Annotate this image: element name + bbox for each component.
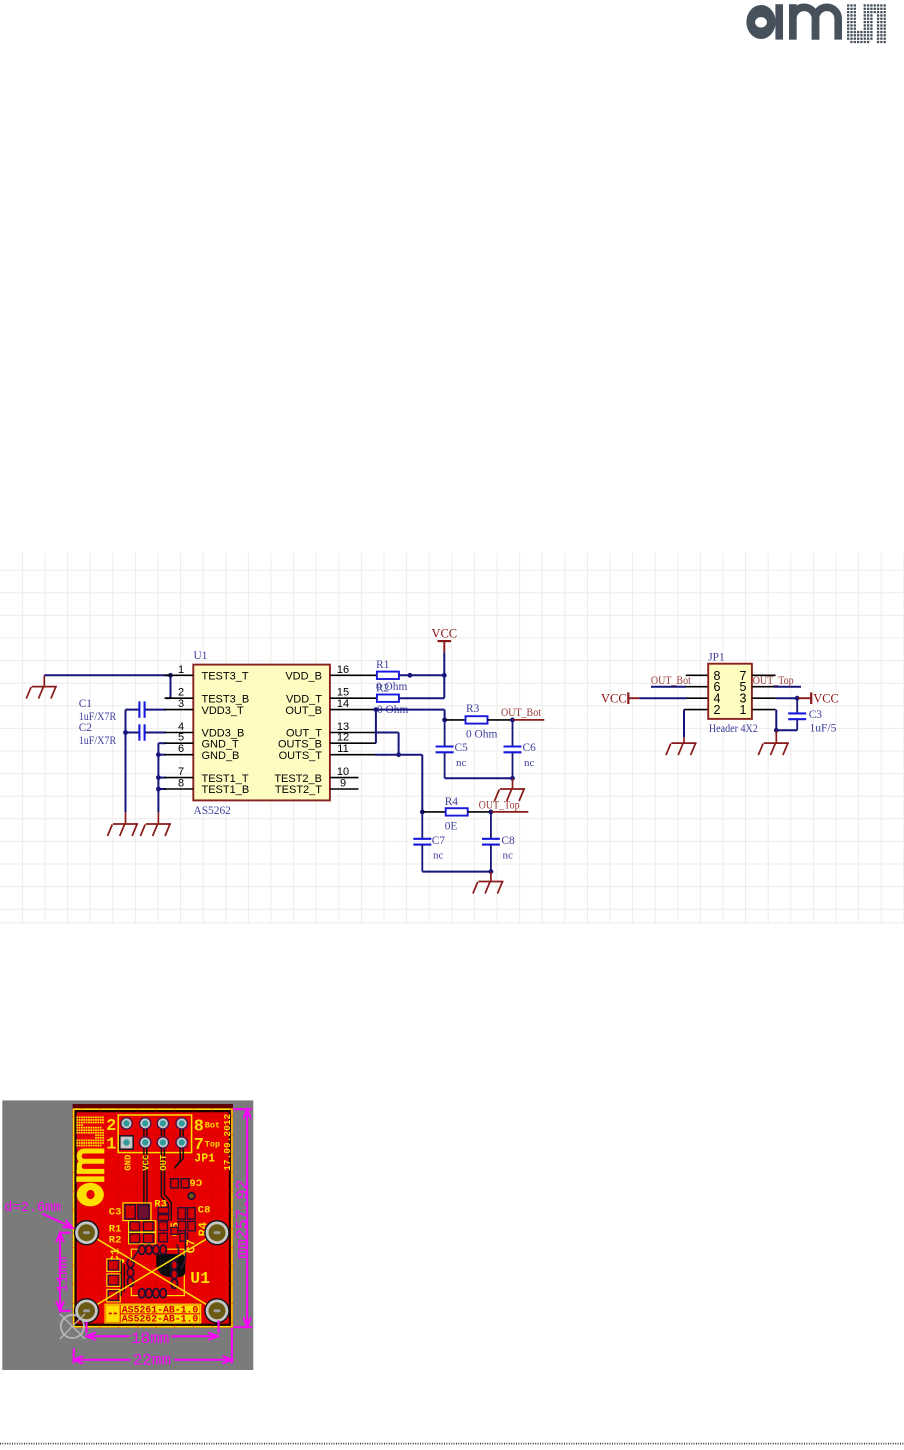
R4 refdes	[445, 796, 459, 808]
capacitor C2	[126, 724, 167, 740]
svg-text:d=2.6mm: d=2.6mm	[4, 1201, 61, 1216]
svg-text:nc: nc	[503, 850, 514, 862]
svg-text:R3: R3	[466, 703, 480, 715]
wire JP1 pin1 to C3 bottom	[752, 710, 797, 731]
pcb silk GND	[124, 1154, 134, 1171]
junction OUT_Top	[489, 810, 494, 815]
svg-text:OUT_Top: OUT_Top	[479, 798, 520, 812]
pcb yellow ams logo rotated	[76, 1116, 104, 1206]
pcb red board	[73, 1108, 233, 1328]
svg-text:VCC: VCC	[813, 692, 839, 706]
JP1 value Header 4X2	[709, 723, 758, 735]
svg-text:C6: C6	[189, 1175, 202, 1187]
U1 value AS5262	[194, 805, 232, 817]
svg-text:10: 10	[337, 766, 349, 778]
R4 value 0E	[445, 821, 458, 833]
svg-text:C5: C5	[455, 742, 469, 754]
resistor R4	[446, 808, 468, 815]
pcb silk C5 rotated	[168, 1222, 182, 1236]
pcb silk R2	[109, 1234, 122, 1246]
svg-text:1: 1	[740, 703, 747, 717]
svg-text:22mm: 22mm	[133, 1352, 171, 1370]
svg-text:14: 14	[337, 698, 349, 710]
pcb silk R1	[109, 1223, 122, 1235]
wire pins5-8 bus	[158, 743, 166, 812]
wire pin15 to R2	[359, 697, 377, 699]
svg-text:Top: Top	[205, 1140, 220, 1150]
pcb silk text 1	[106, 1136, 116, 1155]
net label OUT_Bot	[651, 673, 692, 687]
svg-text:GND_T: GND_T	[202, 738, 240, 750]
capacitor C8	[482, 812, 500, 872]
wire OUT_Bot to JP1 pin6	[651, 686, 708, 688]
pcb silk C8	[198, 1204, 211, 1216]
pcb board top dark edge	[73, 1104, 233, 1108]
pcb silk text JP1	[194, 1152, 215, 1165]
pcb component R3	[158, 1207, 169, 1220]
svg-text:nc: nc	[456, 757, 467, 769]
pcb silk C3	[109, 1206, 122, 1218]
R1 value overlapped with R2 refdes	[376, 681, 407, 695]
R3 refdes	[466, 703, 480, 715]
svg-text:OUTS_B: OUTS_B	[278, 738, 322, 750]
svg-text:TEST1_B: TEST1_B	[202, 784, 250, 796]
svg-text:OUTS_T: OUTS_T	[279, 750, 323, 762]
svg-text:C6: C6	[523, 742, 537, 754]
svg-text:2: 2	[178, 687, 184, 699]
svg-text:C8: C8	[501, 835, 515, 847]
svg-text:AS5262: AS5262	[194, 805, 232, 817]
capacitor C5	[436, 720, 454, 778]
dimension d=2.6mm	[4, 1201, 74, 1231]
ground G6	[666, 737, 697, 755]
svg-text:8: 8	[194, 1117, 204, 1136]
svg-text:16: 16	[337, 664, 349, 676]
svg-text:VCC: VCC	[431, 627, 457, 641]
junction pin7	[156, 775, 161, 780]
ground G2	[108, 812, 139, 836]
svg-text:OUT_Bot: OUT_Bot	[501, 705, 542, 719]
U1 refdes	[194, 650, 208, 662]
svg-text:3: 3	[178, 698, 184, 710]
pcb component C3	[123, 1203, 151, 1221]
junction ground bus 2	[489, 869, 494, 874]
resistor R2	[377, 695, 399, 702]
svg-text:1uF/5: 1uF/5	[810, 723, 837, 735]
svg-text:nc: nc	[524, 757, 535, 769]
pcb left components	[107, 1259, 125, 1302]
junction pin13 tie	[396, 752, 401, 757]
C8 labels	[501, 835, 515, 862]
ground G5	[473, 872, 504, 894]
wire pin14 net	[359, 709, 445, 711]
U1 pin names	[202, 671, 323, 797]
svg-text:C7: C7	[432, 835, 446, 847]
dimension 29.752mm	[233, 1109, 252, 1327]
pcb silk text 2	[106, 1117, 116, 1136]
svg-text:mm257.92: mm257.92	[233, 1180, 252, 1259]
svg-text:JP1: JP1	[708, 652, 725, 664]
svg-text:R1: R1	[376, 659, 390, 671]
ground G7	[758, 730, 789, 755]
wire VCC to JP1 pin4	[639, 697, 708, 699]
capacitor C1	[126, 701, 167, 717]
resistor R1	[377, 672, 399, 679]
dimension 11mm	[54, 1233, 71, 1311]
wire to R3	[445, 719, 466, 721]
wire pin11	[359, 755, 423, 812]
wire C1 C2 to ground	[123, 710, 128, 813]
wire pin13	[359, 733, 399, 755]
svg-text:9: 9	[340, 778, 346, 790]
pcb silk OUT	[159, 1154, 169, 1171]
junction ground bus	[510, 776, 515, 781]
pcb gray background	[2, 1100, 253, 1370]
dimension 22mm	[74, 1328, 232, 1369]
svg-text:R2: R2	[376, 683, 390, 695]
wire pin1 to pin2	[166, 675, 171, 698]
svg-text:2: 2	[714, 703, 721, 717]
svg-text:17.09.2012: 17.09.2012	[222, 1113, 233, 1170]
ground G1	[26, 675, 57, 698]
pcb label box	[105, 1304, 201, 1323]
svg-text:AS5262-AB-1.0: AS5262-AB-1.0	[122, 1314, 199, 1325]
svg-text:TEST3_T: TEST3_T	[202, 671, 249, 683]
svg-text:5: 5	[178, 732, 184, 744]
svg-text:VDD3_T: VDD3_T	[202, 705, 244, 717]
svg-text:11mm: 11mm	[54, 1257, 71, 1293]
dimension 18mm	[87, 1320, 219, 1348]
pcb origin crosshair	[60, 1314, 85, 1339]
net label OUT_Top	[753, 673, 794, 687]
wire JP1 pin5 OUT_Top	[752, 686, 801, 688]
svg-text:0 Ohm: 0 Ohm	[466, 729, 497, 741]
junction pin1	[168, 673, 173, 678]
pcb silk date 17.09.2012	[222, 1113, 233, 1170]
junction on R1 wire	[408, 673, 413, 678]
C7 labels	[432, 835, 446, 862]
port OUT_Bot	[501, 705, 544, 720]
svg-text:OUT_Bot: OUT_Bot	[651, 673, 692, 687]
pcb label text AS5261-AB-1.0	[122, 1304, 199, 1315]
C6 labels	[523, 742, 537, 769]
svg-text:TEST3_B: TEST3_B	[202, 693, 250, 705]
power VCC top symbol	[431, 627, 457, 676]
pcb header JP1 outline	[118, 1115, 191, 1153]
capacitor C7	[413, 812, 431, 872]
ground G4	[495, 778, 526, 801]
ams logo dotted letter s	[847, 4, 886, 43]
pcb silk VCC	[142, 1154, 152, 1171]
svg-text:6: 6	[178, 743, 184, 755]
svg-text:12: 12	[337, 732, 349, 744]
wire JP1 pin3 to VCC	[752, 697, 797, 699]
pcb mounting holes	[75, 1221, 230, 1323]
svg-text:JP1: JP1	[194, 1152, 215, 1165]
svg-text:U1: U1	[190, 1269, 210, 1288]
wire down to R3 branch	[444, 710, 446, 720]
C1 labels	[79, 698, 117, 723]
pcb silk R4 rotated	[196, 1222, 210, 1236]
pcb silk U1	[190, 1269, 210, 1288]
svg-text:Bot: Bot	[205, 1121, 220, 1131]
junction pin8	[156, 787, 161, 792]
pcb traces	[144, 1129, 183, 1222]
pcb component C8	[178, 1208, 195, 1219]
svg-text:OUT_B: OUT_B	[285, 705, 322, 717]
pcb components R1 R2	[129, 1221, 156, 1244]
pcb X cross	[87, 1233, 218, 1311]
pcb mid pads	[159, 1221, 196, 1241]
connector JP1 body	[708, 664, 752, 719]
ams logo letter a	[746, 4, 783, 39]
C5 labels	[455, 742, 469, 769]
U1 pin numbers	[178, 664, 349, 790]
pcb silk text 7 Top	[194, 1136, 220, 1155]
wire to R4	[422, 811, 445, 813]
pcb silk R3	[154, 1198, 167, 1210]
svg-text:C3: C3	[109, 1206, 122, 1218]
junction OUT_Bot	[510, 718, 515, 723]
svg-text:VCC: VCC	[142, 1154, 152, 1171]
C3 labels	[809, 709, 837, 735]
pcb silk C1 rotated	[108, 1248, 122, 1262]
wire pin12 to pin14	[359, 710, 376, 744]
svg-text:8: 8	[178, 778, 184, 790]
svg-text:TEST1_T: TEST1_T	[202, 773, 249, 785]
wire R4 to OUT_Top	[468, 811, 491, 813]
svg-text:C3: C3	[809, 709, 823, 721]
R2 value 0 Ohm	[377, 704, 408, 716]
power VCC symbol right	[797, 692, 839, 706]
svg-text:1: 1	[178, 664, 184, 676]
svg-text:OUT: OUT	[159, 1154, 169, 1171]
C2 labels	[79, 722, 117, 747]
U1 pin stubs	[165, 675, 359, 789]
pcb IC footprint	[127, 1230, 185, 1297]
JP1 pin numbers	[714, 669, 747, 717]
svg-text:11: 11	[337, 743, 348, 755]
JP1 pin8 stub	[686, 674, 709, 676]
pcb via	[187, 1192, 195, 1200]
capacitor C6	[504, 720, 522, 778]
wire C5 C6 ground bus	[445, 777, 513, 779]
resistor R3	[466, 716, 488, 723]
wire R2 to VCC net	[399, 675, 444, 698]
power VCC symbol left of JP1	[601, 692, 639, 706]
pcb label text AS5262-AB-1.0	[122, 1314, 199, 1325]
JP1 pin7 stub	[752, 674, 776, 676]
svg-text:15: 15	[337, 687, 349, 699]
svg-text:VDD_T: VDD_T	[286, 693, 322, 705]
svg-text:R2: R2	[109, 1234, 122, 1246]
ams logo letter m	[789, 4, 838, 39]
port OUT_Top	[479, 798, 529, 812]
JP1 refdes	[708, 652, 725, 664]
svg-text:2: 2	[106, 1117, 116, 1136]
svg-text:TEST2_T: TEST2_T	[275, 784, 322, 796]
wire pin1 net	[44, 674, 170, 676]
svg-text:U1: U1	[194, 650, 208, 662]
junction pin1 ground	[774, 728, 779, 733]
ground G3	[140, 812, 171, 836]
junction R3 branch	[442, 718, 447, 723]
wire R3 to OUT_Bot	[488, 719, 513, 721]
IC U1 AS5262 body	[193, 665, 330, 801]
capacitor C3	[788, 698, 806, 730]
svg-text:GND_B: GND_B	[202, 750, 240, 762]
pcb faint grid	[73, 1108, 233, 1327]
footer dotted separator	[0, 1443, 904, 1445]
svg-text:7: 7	[178, 766, 184, 778]
junction VCC C3	[795, 696, 800, 701]
svg-text:18mm: 18mm	[131, 1330, 169, 1348]
svg-text:Header 4X2: Header 4X2	[709, 723, 758, 735]
svg-text:VDD_B: VDD_B	[285, 671, 322, 683]
pcb silk C7 rotated	[184, 1239, 198, 1253]
junction at VCC drop	[442, 673, 447, 678]
junction pin6	[156, 752, 161, 757]
svg-text:C8: C8	[198, 1204, 211, 1216]
svg-text:0E: 0E	[445, 821, 458, 833]
pcb header pads	[120, 1117, 188, 1149]
svg-text:1: 1	[106, 1136, 116, 1155]
schematic grid background	[0, 553, 904, 923]
svg-text:C1: C1	[79, 698, 93, 710]
pcb silk text 8 Bot	[194, 1117, 220, 1136]
svg-text:VCC: VCC	[601, 692, 627, 706]
junction pin14 tie	[374, 707, 379, 712]
wire JP1 pin2 to ground	[684, 710, 708, 738]
R1 refdes	[376, 659, 390, 671]
svg-text:C2: C2	[79, 722, 93, 734]
junction R4 branch	[420, 810, 425, 815]
svg-text:TEST2_B: TEST2_B	[274, 773, 322, 785]
R3 value 0 Ohm	[466, 729, 497, 741]
pcb component C6	[171, 1175, 203, 1188]
wire R1 to VCC	[399, 674, 444, 676]
wire C7 C8 ground bus	[422, 871, 491, 873]
svg-text:nc: nc	[433, 850, 444, 862]
svg-text:1uF/X7R: 1uF/X7R	[79, 735, 117, 747]
svg-text:R4: R4	[445, 796, 459, 808]
svg-text:OUT_Top: OUT_Top	[753, 673, 794, 687]
svg-text:GND: GND	[124, 1154, 134, 1171]
wire pin16 to R1	[359, 674, 377, 676]
